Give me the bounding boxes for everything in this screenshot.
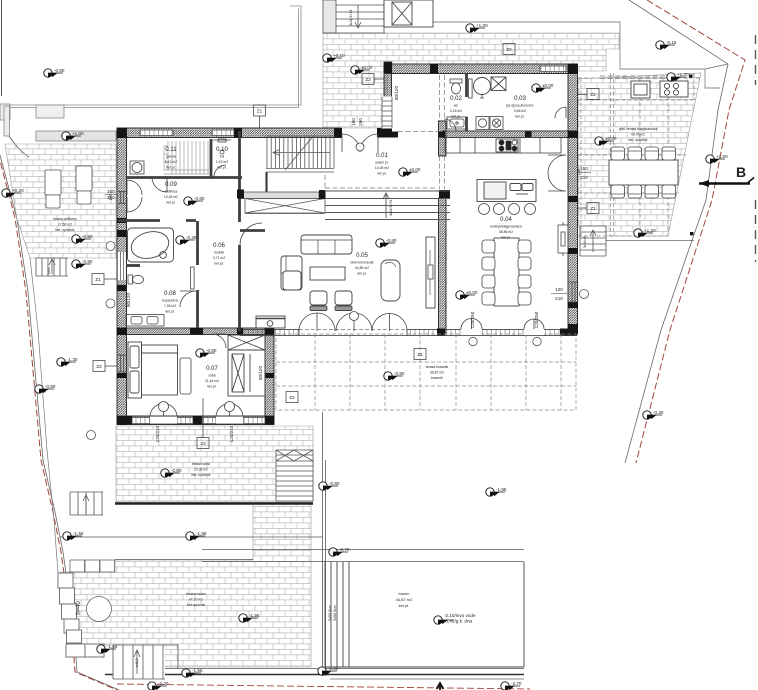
svg-text:bet opločnik: bet opločnik	[187, 603, 205, 607]
svg-text:bet. opločnik: bet. opločnik	[628, 138, 647, 142]
svg-text:-2,20: -2,20	[328, 666, 339, 671]
tus door arc	[214, 165, 226, 177]
svg-text:+0,20: +0,20	[12, 188, 24, 193]
sauna door arc	[152, 177, 167, 192]
wall south of living/dining (window band)	[240, 330, 577, 336]
svg-text:ker.pl.: ker.pl.	[377, 172, 386, 176]
svg-text:47,10 m2: 47,10 m2	[189, 598, 203, 602]
svg-text:210: 210	[107, 195, 115, 200]
svg-text:ulazni pr.: ulazni pr.	[375, 161, 389, 165]
wall east (north block + dining)	[568, 64, 578, 330]
svg-text:4x18,5=74: 4x18,5=74	[389, 200, 393, 216]
svg-text:terasa bazen: terasa bazen	[186, 592, 206, 596]
wardrobe with X	[228, 335, 265, 396]
svg-text:+1,20: +1,20	[644, 228, 656, 233]
wc door arc	[444, 119, 456, 131]
svg-text:-0,80: -0,80	[329, 481, 340, 486]
dining east window 120	[569, 282, 577, 302]
right terrace pergola dashed grid	[578, 73, 700, 236]
shaft box with X	[491, 77, 506, 91]
wall wellness/bath divider	[118, 219, 196, 222]
jacuzzi tub	[128, 228, 174, 262]
svg-text:-0,80: -0,80	[386, 238, 397, 243]
living room sunken steps	[325, 191, 450, 220]
wall west wing top	[117, 128, 341, 138]
svg-text:5x50,5cm: 5x50,5cm	[328, 605, 332, 621]
wall stub between stair and void	[265, 172, 267, 192]
svg-text:-0,26: -0,26	[186, 235, 197, 240]
svg-text:B: B	[736, 164, 746, 180]
svg-text:Z2: Z2	[200, 441, 206, 446]
svg-text:-0,80: -0,80	[206, 348, 217, 353]
outdoor chairs top row	[611, 147, 676, 198]
svg-text:Z1: Z1	[95, 277, 101, 282]
svg-text:bet. opločnik: bet. opločnik	[55, 228, 74, 232]
section mark A bottom	[437, 683, 444, 690]
svg-text:120/210: 120/210	[155, 425, 160, 442]
cooktop 4 burners	[496, 139, 518, 152]
wellness west window 150	[118, 192, 126, 204]
svg-text:ker.pl.: ker.pl.	[515, 115, 524, 119]
svg-text:dnevni boravak: dnevni boravak	[351, 261, 374, 265]
svg-text:Z1: Z1	[257, 109, 263, 114]
fireplace	[256, 316, 285, 328]
svg-text:±0,00: ±0,00	[361, 65, 373, 70]
dashed line wc/kitchen opening	[440, 75, 445, 121]
svg-text:-0,30: -0,30	[653, 410, 664, 415]
svg-text:±0,00: ±0,00	[605, 136, 617, 141]
island stools	[479, 204, 536, 215]
sofa L-group	[281, 235, 352, 290]
dining east double door	[548, 155, 566, 191]
bedroom french door west	[150, 402, 243, 418]
wall bedroom bottom	[117, 416, 274, 425]
sauna stove	[130, 161, 144, 174]
black pier at stair void right	[319, 190, 326, 199]
svg-text:13,45 m2: 13,45 m2	[164, 195, 178, 199]
shower head tus	[213, 139, 231, 154]
parcel boundary bottom (red dashed)	[117, 684, 530, 689]
svg-text:Z2: Z2	[590, 92, 596, 97]
svg-text:+1,00: +1,00	[677, 72, 689, 77]
dashed canopy line north-right	[600, 76, 668, 79]
svg-text:Z2: Z2	[506, 47, 512, 52]
stair terrace south (from living terrace down)	[276, 450, 313, 501]
stair right terrace down	[580, 226, 606, 256]
wall sauna bottom	[126, 176, 242, 179]
svg-text:-1,95: -1,95	[496, 487, 507, 492]
hodnik-bedroom door arc	[212, 334, 226, 348]
pergola posts (circles)	[87, 290, 589, 440]
svg-text:-1,30: -1,30	[67, 357, 78, 362]
svg-text:-0,80: -0,80	[82, 259, 93, 264]
svg-text:wellness: wellness	[164, 190, 177, 194]
svg-text:160: 160	[351, 118, 356, 126]
pool top wavy edge	[202, 550, 524, 562]
bath door arc	[180, 291, 196, 307]
svg-text:Z1: Z1	[590, 206, 596, 211]
svg-text:+1,00: +1,00	[476, 23, 488, 28]
svg-text:5x50,5cm: 5x50,5cm	[333, 605, 337, 621]
svg-text:-1,95: -1,95	[196, 531, 207, 536]
svg-text:Z2: Z2	[289, 395, 295, 400]
svg-text:±0,00: ±0,00	[542, 83, 554, 88]
planter row top	[70, 560, 115, 572]
sauna benches	[164, 141, 209, 174]
dining radiator east	[558, 222, 568, 256]
tree circle on terasa bazen	[87, 597, 112, 622]
stair void X cross	[245, 199, 325, 214]
svg-text:4x18,5=74: 4x18,5=74	[349, 10, 353, 26]
svg-text:-0,80: -0,80	[54, 68, 65, 73]
svg-text:-2,20: -2,20	[158, 681, 169, 686]
wall wc 0.02 right	[465, 73, 468, 131]
stair bottom terrace	[113, 645, 178, 679]
wc toilet	[450, 79, 462, 94]
stair wellness terrace exit	[36, 258, 68, 276]
svg-text:0.07: 0.07	[206, 366, 218, 372]
svg-text:44,89 m2: 44,89 m2	[355, 266, 369, 270]
svg-text:-3,45/g.k. dna: -3,45/g.k. dna	[444, 619, 473, 624]
outdoor dining table	[609, 160, 678, 185]
terasa soba bottom edge dark line	[115, 502, 313, 505]
north block east door arc	[555, 107, 566, 118]
svg-text:ker.pl.: ker.pl.	[166, 166, 175, 170]
svg-text:ker.pl.: ker.pl.	[207, 385, 216, 389]
stair interior (up)	[266, 134, 334, 172]
svg-text:150: 150	[107, 189, 115, 194]
roof outline north-east (thin line)	[433, 22, 728, 88]
svg-text:Z2: Z2	[96, 364, 102, 369]
small black end square of canopy dash	[689, 75, 692, 78]
parcel boundary left (black thin)	[0, 155, 119, 690]
svg-text:0.08: 0.08	[164, 291, 176, 297]
svg-text:spr./gosp./konzerv.: spr./gosp./konzerv.	[506, 104, 534, 108]
svg-text:ker.pl.: ker.pl.	[451, 115, 460, 119]
svg-text:+1,00: +1,00	[716, 154, 728, 159]
wellness west double door	[127, 180, 142, 212]
terrain line south of wellness terrace	[30, 258, 58, 573]
wall column circle left	[106, 242, 115, 251]
coffee table	[310, 267, 345, 280]
svg-text:120/250: 120/250	[534, 311, 539, 328]
dining chairs left column	[482, 240, 531, 305]
living south accordion door arcs	[299, 312, 407, 332]
svg-text:-0,15: -0,15	[666, 40, 677, 45]
dining south door arcs pair 1	[461, 329, 544, 336]
bed bench	[180, 358, 191, 394]
wall bedroom right	[265, 328, 274, 424]
wall bath/wc inner	[126, 264, 140, 267]
svg-text:ker.pl.: ker.pl.	[217, 166, 226, 170]
svg-text:44,87 m2: 44,87 m2	[396, 597, 413, 602]
wc radiator	[469, 79, 473, 98]
svg-text:wc: wc	[454, 104, 458, 108]
svg-text:0.10: 0.10	[216, 147, 228, 153]
svg-text:Z2: Z2	[365, 77, 371, 82]
svg-text:bet. opločnik: bet. opločnik	[191, 473, 210, 477]
svg-text:0.05: 0.05	[356, 253, 368, 259]
stair ladder north of kitchen	[382, 97, 393, 129]
wall bath right	[196, 221, 199, 328]
svg-text:-1,55: -1,55	[73, 531, 84, 536]
svg-text:20,39 m2: 20,39 m2	[194, 468, 208, 472]
svg-text:-1,55: -1,55	[107, 644, 118, 649]
pool bottom wavy lines	[150, 668, 524, 670]
svg-text:ker.pl.: ker.pl.	[357, 272, 366, 276]
kitchen counter row	[445, 138, 561, 154]
svg-text:prikl./terasa blagovaonica: prikl./terasa blagovaonica	[619, 127, 658, 131]
svg-text:0.09: 0.09	[165, 182, 177, 188]
stair void parapet band	[240, 192, 319, 199]
svg-text:0.11: 0.11	[165, 147, 177, 153]
svg-text:ker.pl.: ker.pl.	[166, 201, 175, 205]
svg-text:0.02: 0.02	[450, 96, 462, 102]
parcel boundary left (red dashed)	[0, 153, 117, 690]
svg-text:260: 260	[358, 118, 363, 126]
bazen label	[396, 591, 413, 608]
svg-text:9,66 m2: 9,66 m2	[514, 109, 526, 113]
svg-text:terasa wellness: terasa wellness	[53, 217, 77, 221]
svg-text:48,76 m2: 48,76 m2	[631, 133, 645, 137]
bathroom vanity double sink	[126, 315, 164, 327]
svg-text:120: 120	[555, 287, 563, 292]
svg-text:210: 210	[555, 296, 563, 301]
svg-text:120/210: 120/210	[229, 425, 234, 442]
svg-text:ker.pl.: ker.pl.	[399, 603, 410, 608]
svg-text:17,50 m2: 17,50 m2	[58, 223, 72, 227]
terasa wellness brick hatch	[5, 144, 116, 258]
parcel boundary left vertical line	[1, 0, 3, 96]
svg-text:-0,80: -0,80	[45, 384, 56, 389]
svg-text:5,12 m2: 5,12 m2	[165, 160, 177, 164]
dashed ceiling line entry/kitchen	[398, 131, 439, 133]
wall sauna/tus divider	[210, 139, 213, 177]
svg-text:-0,80: -0,80	[171, 468, 182, 473]
bed	[128, 342, 178, 398]
svg-text:-0,80: -0,80	[194, 196, 205, 201]
svg-text:±0,00: ±0,00	[466, 290, 478, 295]
wall living/kitchen divider	[439, 121, 447, 156]
right terrace (blagovaonica) brick hatch	[578, 73, 701, 236]
svg-text:0.01: 0.01	[376, 153, 388, 159]
terasa bazen brick hatch	[60, 503, 311, 667]
svg-text:-0,80: -0,80	[82, 234, 93, 239]
svg-text:tuš: tuš	[220, 155, 225, 159]
svg-text:-0,80: -0,80	[394, 371, 405, 376]
svg-text:sauna: sauna	[166, 155, 175, 159]
armchairs	[310, 291, 352, 311]
roof outline west wing (thin double line)	[9, 6, 301, 108]
svg-text:38,86 m2: 38,86 m2	[499, 230, 513, 234]
stepped planter wall chain along boundary	[58, 573, 104, 657]
stair terasa soba exit	[70, 492, 103, 515]
svg-text:14,08 m2: 14,08 m2	[375, 166, 389, 170]
svg-text:3x16: 3x16	[47, 267, 51, 274]
bathroom radiator	[191, 267, 195, 289]
chaise longue	[381, 260, 400, 301]
terasa wellness upper gray wall band	[0, 104, 116, 157]
entry double door with swing arcs	[342, 134, 378, 152]
svg-text:3x16=48: 3x16=48	[583, 236, 587, 249]
west wing top wall window bands	[140, 66, 566, 137]
terasa soba brick hatch	[116, 426, 313, 502]
svg-text:3,71 m2: 3,71 m2	[213, 256, 225, 260]
wall west wing left	[117, 128, 127, 424]
wall corner blocks	[117, 62, 578, 425]
utility round sink	[474, 78, 491, 95]
parcel boundary top-right (black thin)	[625, 0, 728, 463]
svg-text:80/120: 80/120	[258, 366, 263, 380]
svg-text:36,87 m2: 36,87 m2	[430, 371, 444, 375]
svg-text:120/250: 120/250	[470, 311, 475, 328]
kitchen island	[477, 180, 536, 202]
svg-text:-2,10/nivo vode: -2,10/nivo vode	[444, 613, 476, 618]
bathroom toilet	[128, 275, 144, 284]
svg-text:0.03: 0.03	[514, 96, 526, 102]
wall north block left	[384, 62, 392, 131]
elevator shaft	[384, 0, 433, 27]
svg-text:-2,70: -2,70	[511, 681, 522, 686]
svg-text:terasa soba: terasa soba	[192, 462, 210, 466]
svg-text:soba: soba	[208, 374, 215, 378]
svg-text:kupaonica: kupaonica	[162, 299, 178, 303]
svg-text:-1,55: -1,55	[192, 668, 203, 673]
right edge survey dashes	[755, 35, 757, 262]
svg-text:21,44 m2: 21,44 m2	[205, 379, 219, 383]
svg-text:ker.pl.: ker.pl.	[501, 236, 510, 240]
pool deck edge double line	[323, 412, 326, 676]
parcel boundary top-right (red dashed)	[636, 0, 745, 463]
washer and dryer	[476, 117, 503, 130]
svg-text:kuhinja/blagovaonica: kuhinja/blagovaonica	[490, 225, 522, 229]
svg-text:0.06: 0.06	[213, 243, 225, 249]
svg-text:7,35 m2: 7,35 m2	[164, 304, 176, 308]
svg-text:+0,10: +0,10	[333, 53, 345, 58]
svg-text:±0,00: ±0,00	[409, 167, 421, 172]
svg-text:-0,70: -0,70	[339, 547, 350, 552]
path line south of terasa soba	[60, 536, 322, 538]
svg-text:bazenih: bazenih	[431, 376, 443, 380]
svg-text:-1,95: -1,95	[249, 613, 260, 618]
svg-text:150: 150	[580, 166, 588, 171]
wall tus right / hodnik left	[238, 131, 241, 331]
utility cabinet with sink	[447, 117, 467, 129]
wall kitchen/entry divider	[443, 131, 577, 138]
wall bedroom top	[117, 328, 274, 335]
wall hodnik bottom/stair	[240, 229, 265, 232]
svg-text:h=40: h=40	[76, 601, 82, 615]
svg-text:ker.pl.: ker.pl.	[214, 262, 223, 266]
svg-text:2,16 m2: 2,16 m2	[450, 109, 462, 113]
svg-text:80/120: 80/120	[394, 86, 399, 100]
svg-text:0.04: 0.04	[500, 217, 512, 223]
stair north entry (exterior, down)	[323, 0, 385, 33]
svg-text:80/120: 80/120	[126, 293, 131, 307]
TV sideboard	[426, 237, 435, 308]
svg-text:terasa boravak: terasa boravak	[426, 365, 449, 369]
bedroom south window bands	[132, 417, 265, 425]
north terrace brick hatch	[323, 33, 619, 128]
svg-text:bazen: bazen	[399, 591, 410, 596]
svg-text:hodnik: hodnik	[214, 251, 224, 255]
svg-text:+1,00: +1,00	[72, 131, 84, 136]
svg-text:4x15,5: 4x15,5	[135, 658, 139, 668]
svg-text:Z1: Z1	[417, 352, 423, 357]
pool basin	[325, 562, 524, 667]
wall north block top	[384, 64, 577, 74]
hodnik door from entry arc	[240, 223, 262, 245]
svg-text:210: 210	[580, 175, 588, 180]
west wall bedroom window	[118, 355, 126, 372]
svg-text:ker.pl.: ker.pl.	[165, 310, 174, 314]
svg-text:1,92 m2: 1,92 m2	[216, 160, 228, 164]
